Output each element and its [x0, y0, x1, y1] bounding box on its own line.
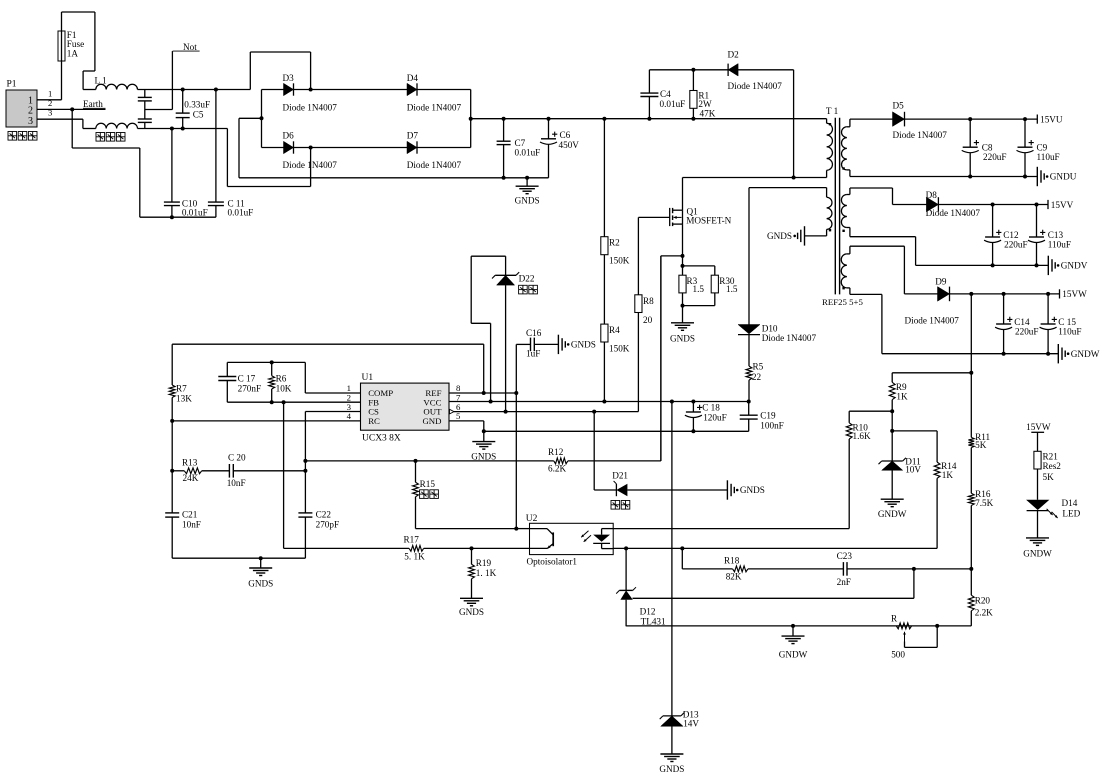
- svg-text:Diode 1N4007: Diode 1N4007: [893, 130, 948, 140]
- svg-text:150K: 150K: [609, 256, 630, 266]
- svg-text:5. 1K: 5. 1K: [404, 552, 425, 562]
- wire secondary3 return: [850, 293, 882, 295]
- op-amp U1 controller UCX38X: [361, 383, 450, 430]
- svg-text:U2: U2: [526, 514, 538, 524]
- optocoupler U2 LED: [601, 529, 603, 535]
- svg-text:C7: C7: [515, 138, 526, 148]
- wire D2 to drain: [793, 70, 795, 178]
- wire bridge left vertical: [261, 90, 263, 148]
- power port 15VU: [1036, 115, 1038, 124]
- wire bridge negative tap: [239, 117, 262, 119]
- svg-text:0.01uF: 0.01uF: [660, 99, 686, 109]
- power port 15VV: [1047, 200, 1049, 209]
- svg-text:Res2: Res2: [1043, 461, 1062, 471]
- svg-text:2W: 2W: [698, 99, 712, 109]
- potentiometer R 500: [896, 623, 911, 629]
- svg-text:13K: 13K: [176, 394, 192, 404]
- svg-text:47K: 47K: [700, 109, 716, 119]
- svg-text:R13: R13: [182, 457, 198, 467]
- svg-text:RC: RC: [368, 416, 380, 426]
- svg-text:GNDW: GNDW: [1071, 349, 1100, 359]
- resistor R13 row: [172, 470, 184, 472]
- wire D9 row: [904, 293, 1059, 295]
- svg-text:GNDW: GNDW: [878, 509, 907, 519]
- svg-text:C22: C22: [316, 509, 332, 519]
- svg-text:C12: C12: [1003, 230, 1019, 240]
- ground port GNDU: [1036, 167, 1038, 186]
- diode D14 LED: [1026, 500, 1049, 510]
- svg-text:R8: R8: [643, 296, 654, 306]
- wire pin4 RC: [172, 420, 360, 422]
- svg-text:270pF: 270pF: [316, 520, 340, 530]
- capacitor C18: [691, 400, 695, 404]
- capacitor C15: [1046, 292, 1050, 296]
- diode D22 zener (not fitted): [471, 255, 505, 257]
- svg-text:15VW: 15VW: [1062, 289, 1087, 299]
- capacitor C11: [214, 88, 218, 92]
- svg-text:C16: C16: [526, 328, 542, 338]
- ground GNDS (D13): [660, 753, 683, 755]
- wire D3-D4 row: [262, 89, 471, 91]
- wire GND row (pin5): [484, 430, 749, 432]
- svg-text:Diode 1N4007: Diode 1N4007: [905, 316, 960, 326]
- svg-text:1.6K: 1.6K: [853, 431, 871, 441]
- wire pin1 jog: [304, 362, 306, 393]
- capacitor C6: [547, 117, 551, 121]
- svg-text:GNDS: GNDS: [659, 764, 684, 774]
- svg-text:D4: D4: [407, 73, 419, 83]
- svg-text:10V: 10V: [905, 465, 921, 475]
- connector P1: [6, 90, 37, 127]
- wire R9 down: [891, 400, 893, 461]
- resistor R12 row: [305, 460, 553, 462]
- resistor R1: [691, 68, 695, 72]
- wire AC bottom line: [138, 128, 228, 130]
- svg-text:R5: R5: [753, 362, 764, 372]
- svg-text:C 17: C 17: [238, 373, 256, 383]
- svg-text:R20: R20: [975, 595, 991, 605]
- svg-text:15VV: 15VV: [1051, 200, 1074, 210]
- power port 15VW: [1059, 289, 1061, 298]
- svg-text:110uF: 110uF: [1048, 240, 1071, 250]
- capacitor C7: [502, 117, 506, 121]
- svg-text:D22: D22: [519, 273, 535, 283]
- svg-text:0.01uF: 0.01uF: [182, 208, 208, 218]
- svg-text:R15: R15: [420, 479, 436, 489]
- wire GNDV row: [916, 264, 1049, 266]
- svg-text:2.2K: 2.2K: [975, 607, 993, 617]
- capacitor C10: [170, 127, 174, 131]
- wire GNDW row: [882, 353, 1058, 355]
- wire R21 to LED: [1037, 469, 1039, 500]
- optocoupler U2 phototransistor: [530, 528, 548, 530]
- svg-text:C13: C13: [1048, 230, 1064, 240]
- wire Q1 gate: [638, 216, 669, 218]
- optocoupler U2: [530, 523, 614, 554]
- capacitor C4: [647, 117, 651, 121]
- svg-text:GNDS: GNDS: [740, 485, 765, 495]
- svg-text:220uF: 220uF: [1015, 327, 1039, 337]
- svg-text:C 18: C 18: [702, 402, 720, 412]
- diode D13 zener 14V: [670, 400, 674, 404]
- resistor R4: [603, 255, 605, 324]
- svg-text:15VW: 15VW: [1026, 422, 1051, 432]
- ground GNDW (D11): [891, 470, 893, 499]
- svg-text:D9: D9: [935, 276, 947, 286]
- transformer T1 secondary 3: [849, 246, 851, 254]
- ground GNDS (comp): [259, 556, 263, 560]
- svg-text:R7: R7: [176, 384, 187, 394]
- resistor R16: [968, 493, 974, 505]
- svg-text:5K: 5K: [975, 440, 987, 450]
- diode D11 zener 10V: [882, 460, 903, 462]
- resistor R20: [968, 595, 974, 611]
- svg-text:120uF: 120uF: [703, 412, 727, 422]
- wire bridge top bracket: [249, 52, 251, 90]
- wire FB down branch: [282, 400, 286, 404]
- wire Y-cap midpoint to Not: [145, 109, 173, 111]
- svg-text:110uF: 110uF: [1037, 152, 1060, 162]
- wire bridge bottom path: [226, 129, 228, 187]
- resistor R30: [683, 265, 715, 267]
- Y-capacitor pair: [144, 90, 146, 98]
- capacitor C21: [171, 471, 173, 513]
- capacitor C20: [228, 464, 230, 478]
- svg-text:R17: R17: [404, 535, 420, 545]
- svg-text:0.33uF: 0.33uF: [184, 99, 210, 109]
- wire feedback chain vertical: [969, 292, 973, 296]
- wire TL431 ref: [633, 597, 914, 599]
- svg-text:1uF: 1uF: [526, 349, 540, 359]
- svg-text:C4: C4: [660, 89, 671, 99]
- resistor R14: [892, 430, 937, 432]
- resistor R5: [748, 335, 750, 366]
- resistor R15 (not fitted): [414, 459, 418, 463]
- svg-text:Diode 1N4007: Diode 1N4007: [762, 333, 817, 343]
- svg-text:GNDS: GNDS: [248, 579, 273, 589]
- wire GNDU row: [850, 176, 1037, 178]
- ground port GNDS (C16): [557, 335, 559, 354]
- svg-text:R4: R4: [609, 325, 620, 335]
- wire D8 row: [893, 204, 1049, 206]
- wire pin2 Earth: [37, 108, 106, 110]
- svg-text:GNDV: GNDV: [1061, 261, 1088, 271]
- capacitor C14: [1002, 292, 1006, 296]
- svg-text:220uF: 220uF: [983, 152, 1007, 162]
- wire CS down branch: [304, 412, 306, 513]
- ground port GNDS (D21): [726, 480, 728, 499]
- wire bridge right vertical: [470, 90, 472, 148]
- svg-text:C23: C23: [837, 551, 853, 561]
- wire D21 to GNDS port: [627, 489, 727, 491]
- wire snubber top: [649, 69, 793, 71]
- ground GNDS (R19): [460, 597, 483, 599]
- resistor R7: [171, 344, 173, 385]
- ground GNDS (source): [682, 306, 684, 323]
- wire TL431 anode row: [626, 625, 971, 627]
- wire Q1 source sense: [682, 224, 684, 266]
- wire secondary3 to D9: [850, 245, 905, 247]
- capacitor C19: [748, 402, 750, 416]
- capacitor C17: [226, 362, 228, 376]
- wire fuse loop: [62, 11, 95, 13]
- svg-text:R18: R18: [724, 555, 740, 565]
- svg-text:GNDW: GNDW: [1023, 549, 1052, 559]
- wire branch to R9: [892, 372, 971, 374]
- svg-text:C19: C19: [760, 410, 776, 420]
- svg-text:5: 5: [456, 411, 461, 421]
- optocoupler U2 light arrows: [581, 531, 588, 537]
- wire D5 row: [850, 118, 1037, 120]
- transformer T1 secondary 1: [849, 119, 851, 127]
- svg-text:GNDS: GNDS: [471, 451, 496, 461]
- svg-text:D2: D2: [728, 50, 740, 60]
- svg-text:10K: 10K: [276, 383, 292, 393]
- transformer T1 aux winding: [749, 187, 827, 189]
- capacitor C8: [968, 117, 972, 121]
- wire R7 to R13 row: [171, 421, 173, 471]
- svg-text:Not: Not: [183, 42, 197, 52]
- ground GNDS (U1): [483, 431, 485, 441]
- resistor R21 Res2 5K: [1034, 451, 1041, 469]
- wire REF net A: [172, 343, 484, 345]
- fuse F1: [61, 61, 63, 100]
- svg-text:Diode 1N4007: Diode 1N4007: [283, 160, 338, 170]
- svg-text:10nF: 10nF: [182, 520, 201, 530]
- svg-text:GNDS: GNDS: [670, 334, 695, 344]
- wire secondary2 to D8: [850, 187, 893, 189]
- wire pin8 REF: [449, 392, 516, 394]
- svg-text:D21: D21: [612, 470, 628, 480]
- svg-text:D12: D12: [640, 607, 656, 617]
- svg-text:5K: 5K: [1043, 472, 1055, 482]
- wire HV+ rail: [471, 118, 827, 120]
- svg-text:GNDS: GNDS: [515, 196, 540, 206]
- resistor R10: [849, 410, 892, 412]
- wire pin1 COMP: [305, 392, 360, 394]
- svg-text:C6: C6: [560, 130, 571, 140]
- svg-text:Diode 1N4007: Diode 1N4007: [407, 102, 462, 112]
- ground port GNDW: [1057, 344, 1059, 363]
- diode D12 TL431: [625, 548, 627, 590]
- resistor R6: [270, 360, 274, 364]
- svg-text:R19: R19: [476, 558, 492, 568]
- svg-text:GNDS: GNDS: [571, 340, 596, 350]
- svg-text:1K: 1K: [942, 470, 954, 480]
- svg-text:450V: 450V: [559, 140, 580, 150]
- svg-text:C21: C21: [182, 509, 198, 519]
- wire Q1 drain: [682, 178, 684, 211]
- svg-text:P1: P1: [7, 80, 17, 90]
- svg-text:1.5: 1.5: [693, 284, 705, 294]
- ground GNDS (bridge): [525, 176, 529, 180]
- svg-text:R: R: [891, 614, 898, 624]
- svg-text:U1: U1: [362, 373, 374, 383]
- svg-text:LED: LED: [1062, 508, 1080, 518]
- resistor R8: [637, 217, 639, 294]
- wire comp bottom rail: [172, 557, 305, 559]
- svg-text:C5: C5: [193, 109, 204, 119]
- wire primary ground rail: [239, 177, 549, 179]
- svg-text:Diode 1N4007: Diode 1N4007: [926, 208, 981, 218]
- svg-text:24K: 24K: [183, 473, 199, 483]
- svg-text:150K: 150K: [609, 343, 630, 353]
- svg-text:GND: GND: [422, 416, 441, 426]
- svg-text:10nF: 10nF: [227, 478, 246, 488]
- resistor R9: [891, 373, 893, 383]
- svg-text:1.5: 1.5: [726, 284, 738, 294]
- resistor R3: [681, 264, 685, 268]
- wire R15 to opto: [416, 528, 517, 530]
- wire R8 to OUT: [637, 313, 639, 412]
- svg-text:MOSFET-N: MOSFET-N: [686, 216, 731, 226]
- diode D10: [748, 188, 750, 325]
- svg-text:110uF: 110uF: [1058, 327, 1081, 337]
- svg-text:D6: D6: [283, 131, 295, 141]
- resistor R17 row: [284, 547, 410, 549]
- svg-text:R6: R6: [276, 373, 287, 383]
- svg-text:0.01uF: 0.01uF: [515, 148, 541, 158]
- wire pin3 to filter: [37, 118, 83, 120]
- svg-text:1. 1K: 1. 1K: [476, 568, 497, 578]
- svg-text:14V: 14V: [683, 719, 699, 729]
- ground port GNDS (aux): [804, 226, 806, 245]
- resistor R19: [470, 546, 474, 550]
- wire earth run down-right: [71, 109, 73, 148]
- svg-text:Diode 1N4007: Diode 1N4007: [283, 102, 338, 112]
- svg-text:D7: D7: [407, 131, 419, 141]
- transformer T1 primary winding: [826, 119, 828, 124]
- svg-text:C 20: C 20: [228, 453, 246, 463]
- svg-text:15VU: 15VU: [1040, 114, 1063, 124]
- svg-text:TL431: TL431: [641, 616, 666, 626]
- svg-text:GNDS: GNDS: [767, 231, 792, 241]
- transformer T1 secondary 2: [849, 188, 851, 195]
- svg-text:20: 20: [643, 315, 653, 325]
- svg-text:500: 500: [891, 650, 905, 660]
- svg-text:3: 3: [28, 116, 33, 127]
- svg-text:1K: 1K: [896, 391, 908, 401]
- svg-text:220uF: 220uF: [1004, 240, 1028, 250]
- capacitor C12: [991, 203, 995, 207]
- wire pin1 to fuse: [37, 99, 62, 101]
- wire pin6 OUT: [454, 411, 638, 413]
- wire opto collector net (top right): [613, 528, 849, 530]
- resistor R18: [681, 548, 683, 569]
- svg-text:D5: D5: [893, 101, 905, 111]
- svg-text:82K: 82K: [726, 572, 742, 582]
- pin 6 output marker: [450, 409, 455, 414]
- wire VCC row: [449, 401, 749, 403]
- svg-text:UCX3 8X: UCX3 8X: [362, 433, 401, 443]
- svg-text:Diode 1N4007: Diode 1N4007: [728, 81, 783, 91]
- svg-text:0.01uF: 0.01uF: [228, 208, 254, 218]
- LED light arrows: [1047, 509, 1053, 515]
- wire pin5 GND: [449, 420, 484, 422]
- svg-text:Optoisolator1: Optoisolator1: [527, 557, 578, 567]
- capacitor C22: [298, 512, 312, 514]
- capacitor C13: [1035, 203, 1039, 207]
- svg-text:2nF: 2nF: [837, 577, 851, 587]
- svg-text:GNDS: GNDS: [459, 607, 484, 617]
- wire AC top line: [138, 89, 251, 91]
- filter label (Chinese): [96, 133, 105, 142]
- junction pin2: [70, 107, 74, 111]
- wire drain to primary: [683, 177, 827, 179]
- wire secondary2 return: [850, 236, 916, 238]
- svg-text:T 1: T 1: [826, 106, 839, 116]
- resistor R11: [968, 437, 974, 447]
- wire C17/R6 top row: [227, 361, 305, 363]
- svg-text:6.2K: 6.2K: [548, 463, 566, 473]
- ground port GNDV: [1047, 256, 1049, 275]
- svg-text:270nF: 270nF: [238, 383, 262, 393]
- svg-text:D3: D3: [283, 73, 295, 83]
- wire D6-D7 row: [262, 147, 471, 149]
- capacitor C5: [182, 90, 184, 114]
- wire pin3 CS: [305, 411, 360, 413]
- wire REF to opto collector: [515, 344, 517, 528]
- svg-text:1: 1: [48, 88, 52, 98]
- svg-text:Diode 1N4007: Diode 1N4007: [407, 160, 462, 170]
- wire pin2 FB: [227, 401, 360, 403]
- capacitor C23: [842, 562, 844, 576]
- ground GNDW (LED): [1037, 511, 1039, 538]
- svg-text:REF25 5+5: REF25 5+5: [822, 297, 863, 307]
- svg-text:100nF: 100nF: [760, 421, 784, 431]
- svg-text:R12: R12: [548, 447, 564, 457]
- svg-text:7.5K: 7.5K: [975, 498, 993, 508]
- svg-text:GNDU: GNDU: [1050, 172, 1077, 182]
- wire opto emitter net (bottom right): [613, 547, 937, 549]
- ground GNDW (TL431): [791, 624, 795, 628]
- transformer T1 core: [834, 118, 836, 295]
- svg-text:R2: R2: [609, 237, 620, 247]
- diode D21 (not fitted): [593, 412, 595, 490]
- svg-text:1A: 1A: [67, 48, 79, 58]
- connector P1 label (Chinese): [8, 132, 17, 141]
- svg-text:D10: D10: [762, 323, 778, 333]
- capacitor C9: [1023, 117, 1027, 121]
- svg-text:4: 4: [347, 411, 352, 421]
- svg-text:GNDW: GNDW: [779, 649, 808, 659]
- svg-text:Earth: Earth: [83, 99, 103, 109]
- resistor R2: [602, 117, 606, 121]
- wire aux to GNDS port: [805, 235, 827, 237]
- svg-text:22: 22: [752, 372, 762, 382]
- svg-text:D14: D14: [1062, 498, 1078, 508]
- transistor Q1 MOSFET-N: [669, 208, 671, 226]
